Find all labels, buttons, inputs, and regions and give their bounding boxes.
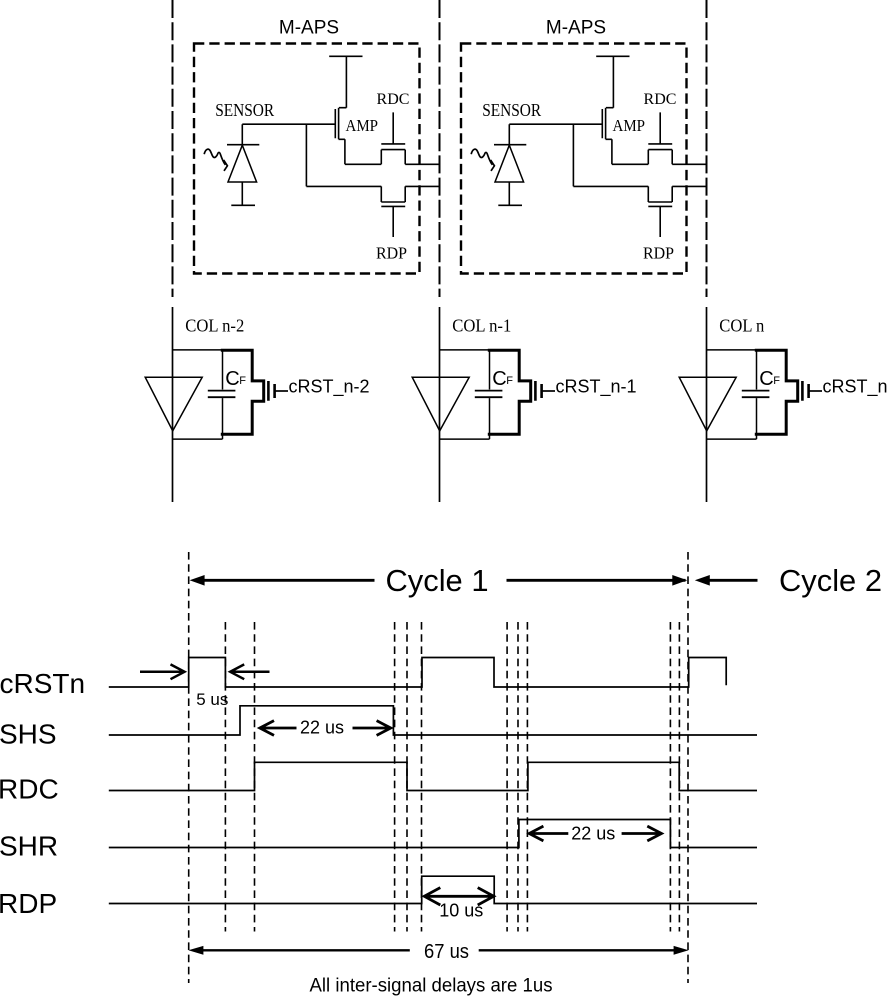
svg-text:RDP: RDP: [0, 888, 57, 919]
svg-text:22 us: 22 us: [300, 717, 344, 737]
svg-text:SHR: SHR: [0, 831, 58, 862]
svg-text:F: F: [506, 375, 513, 387]
svg-text:cRST_n: cRST_n: [823, 377, 888, 398]
svg-text:COL n-2: COL n-2: [185, 315, 244, 335]
svg-text:67 us: 67 us: [424, 941, 469, 963]
svg-text:10 us: 10 us: [439, 901, 483, 921]
svg-text:RDC: RDC: [0, 774, 59, 805]
svg-text:COL n-1: COL n-1: [452, 315, 511, 335]
svg-text:C: C: [492, 368, 506, 390]
svg-text:cRSTn: cRSTn: [0, 668, 85, 699]
svg-text:5 us: 5 us: [196, 690, 228, 709]
svg-text:All inter-signal delays are 1u: All inter-signal delays are 1us: [310, 976, 553, 997]
svg-text:cRST_n-2: cRST_n-2: [289, 377, 370, 398]
svg-text:SHS: SHS: [0, 719, 57, 750]
svg-text:Cycle 2: Cycle 2: [779, 563, 882, 598]
svg-text:F: F: [239, 375, 246, 387]
svg-text:22 us: 22 us: [571, 824, 615, 844]
svg-text:COL n: COL n: [719, 315, 764, 335]
svg-text:cRST_n-1: cRST_n-1: [556, 377, 637, 398]
svg-text:C: C: [759, 368, 773, 390]
svg-text:F: F: [773, 375, 780, 387]
svg-text:Cycle 1: Cycle 1: [386, 563, 489, 598]
svg-text:C: C: [225, 368, 239, 390]
